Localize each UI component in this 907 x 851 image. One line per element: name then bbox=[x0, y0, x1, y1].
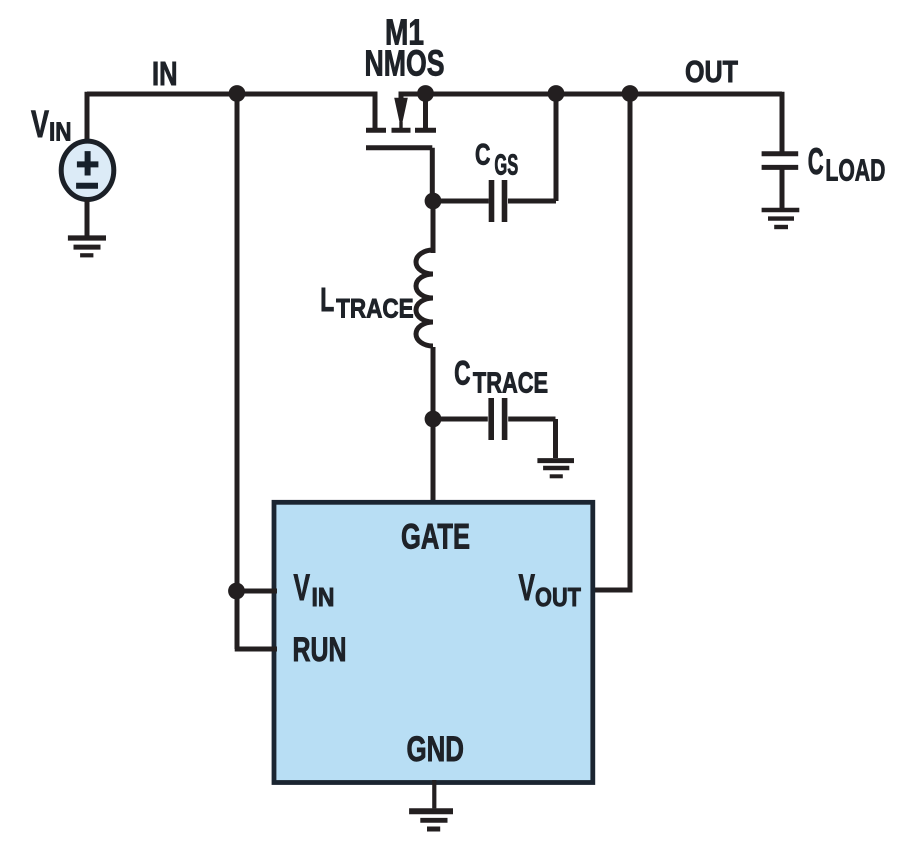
node junction dot at M1 drain on top rail bbox=[417, 85, 434, 102]
transistor M1 (NMOS symbol) bbox=[366, 92, 436, 148]
ground below IC GND pin bbox=[409, 811, 453, 829]
svg-text:IN: IN bbox=[49, 117, 72, 147]
node junction dot at IN rail bbox=[229, 85, 246, 102]
IC U1 body bbox=[274, 502, 593, 782]
wire: top rail from VIN source to MOSFET left terminal bbox=[87, 92, 377, 97]
pin label VIN bbox=[294, 567, 335, 612]
wire: gate lead down from gate plate to gate node bbox=[430, 148, 435, 201]
wire: gate node down to inductor top bbox=[431, 201, 436, 253]
inductor LTRACE bbox=[416, 250, 433, 346]
wire: CGS up to top rail bbox=[554, 94, 559, 201]
value label CLOAD bbox=[808, 141, 886, 188]
ground below CLOAD bbox=[762, 210, 800, 227]
svg-text:OUT: OUT bbox=[685, 54, 738, 89]
svg-text:GATE: GATE bbox=[401, 518, 470, 557]
svg-text:IN: IN bbox=[312, 582, 335, 612]
value label VIN bbox=[31, 104, 72, 147]
value label CTRACE bbox=[454, 355, 548, 400]
svg-text:C: C bbox=[454, 355, 470, 393]
wire: VOUT vertical from top rail down to IC VOUT pin bbox=[592, 94, 630, 590]
svg-text:NMOS: NMOS bbox=[365, 43, 445, 84]
pin label VOUT bbox=[519, 567, 582, 612]
node junction dot at OUT rail / VOUT bbox=[622, 85, 639, 102]
svg-text:GND: GND bbox=[407, 730, 465, 769]
svg-text:TRACE: TRACE bbox=[473, 368, 548, 400]
svg-text:L: L bbox=[320, 281, 334, 318]
voltage source VIN bbox=[61, 141, 114, 199]
capacitor CGS bbox=[433, 180, 556, 222]
wire: CTRACE down to ground bbox=[553, 419, 558, 458]
value label CGS bbox=[475, 139, 518, 182]
svg-text:RUN: RUN bbox=[293, 631, 347, 669]
wire: VIN source top lead bbox=[85, 92, 90, 142]
wire: VIN source bottom lead bbox=[85, 200, 90, 237]
wire: RUN pin to left vertical rail bbox=[235, 647, 277, 652]
wire: CLOAD bottom to ground bbox=[780, 170, 785, 210]
node junction dot at CTRACE bbox=[425, 411, 442, 428]
capacitor CLOAD bbox=[762, 154, 799, 168]
wire: vertical from IN node down to RUN level bbox=[235, 94, 240, 649]
svg-text:TRACE: TRACE bbox=[336, 294, 414, 324]
svg-text:V: V bbox=[31, 104, 49, 146]
svg-text:V: V bbox=[294, 567, 311, 608]
svg-text:LOAD: LOAD bbox=[825, 153, 885, 188]
value label LTRACE bbox=[320, 281, 413, 324]
ground below VIN source bbox=[68, 238, 106, 255]
ground below CTRACE bbox=[537, 461, 574, 477]
svg-text:C: C bbox=[808, 141, 824, 182]
svg-text:IN: IN bbox=[152, 55, 178, 92]
wire: inductor bottom to CTRACE node bbox=[431, 347, 436, 419]
svg-text:GS: GS bbox=[494, 150, 518, 182]
wire: top rail down to CLOAD bbox=[780, 92, 782, 152]
wire: IC GND pin lead bbox=[432, 780, 436, 808]
wire: top rail from MOSFET drain to OUT end bbox=[399, 92, 783, 97]
wire: VIN pin to left vertical rail bbox=[237, 589, 277, 594]
wire: gate node down into IC GATE pin bbox=[431, 419, 436, 503]
svg-text:V: V bbox=[519, 567, 536, 608]
capacitor CTRACE bbox=[433, 398, 556, 440]
node junction dot CGS top rail bbox=[548, 85, 565, 102]
node junction dot at VIN pin bbox=[228, 583, 245, 600]
node junction dot at gate / CGS bbox=[425, 193, 442, 210]
svg-text:OUT: OUT bbox=[535, 582, 581, 612]
svg-text:C: C bbox=[475, 139, 490, 172]
